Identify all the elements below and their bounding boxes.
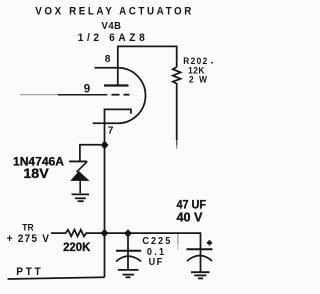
svg-text:V4B: V4B <box>101 21 121 32</box>
svg-text:1/2 6AZ8: 1/2 6AZ8 <box>78 32 145 44</box>
svg-text:8: 8 <box>105 54 111 65</box>
svg-text:9: 9 <box>84 83 90 95</box>
svg-text:UF: UF <box>149 256 163 267</box>
svg-text:C225: C225 <box>142 236 171 247</box>
svg-text:220K: 220K <box>63 240 90 254</box>
svg-text:2 W: 2 W <box>189 74 208 84</box>
svg-text:40 V: 40 V <box>177 210 203 225</box>
svg-text:+ 275 V: + 275 V <box>7 232 49 244</box>
svg-text:TR: TR <box>22 222 34 232</box>
svg-text:18V: 18V <box>23 166 49 181</box>
svg-text:7: 7 <box>108 126 114 137</box>
svg-text:PTT: PTT <box>16 266 41 278</box>
svg-text:VOX RELAY ACTUATOR: VOX RELAY ACTUATOR <box>35 5 191 18</box>
